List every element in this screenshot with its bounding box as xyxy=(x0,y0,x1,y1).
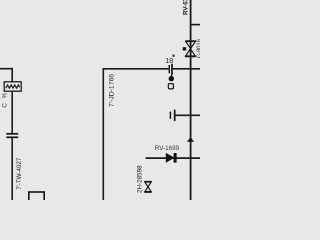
svg-text:18: 18 xyxy=(165,56,173,65)
svg-text:%: % xyxy=(2,92,9,98)
capacitor C1 plates xyxy=(6,134,18,138)
svg-text:RV-1699: RV-1699 xyxy=(155,145,180,152)
svg-text:C: C xyxy=(2,103,9,108)
diode D1 xyxy=(166,153,177,163)
capacitor C3 plates mid right xyxy=(170,110,174,121)
wire capacitor down to bottom edge xyxy=(11,138,13,200)
svg-text:RV-678: RV-678 xyxy=(183,0,190,15)
wire resistor to capacitor xyxy=(11,91,13,133)
component box bottom-left xyxy=(29,192,44,204)
triac Q1 (hourglass with gate) xyxy=(183,41,196,57)
svg-text:7'-TW-4027: 7'-TW-4027 xyxy=(16,157,23,190)
wire from C3 to right edge xyxy=(175,114,200,116)
resistor R (boxed zigzag) xyxy=(4,82,21,91)
wire middle vertical + elbow to right xyxy=(103,69,168,200)
junction dot under C2 xyxy=(168,75,174,89)
branch wire top right xyxy=(191,24,200,26)
wire left input elbow xyxy=(0,69,12,82)
wire diode row xyxy=(146,157,200,159)
svg-text:2H-28598: 2H-28598 xyxy=(136,165,143,193)
svg-text:C-9018: C-9018 xyxy=(196,39,200,58)
diac symbol bottom xyxy=(144,182,151,193)
label 18" xyxy=(165,55,174,65)
arrow up on right bus xyxy=(187,137,194,142)
svg-text:7'-JD-1766: 7'-JD-1766 xyxy=(108,74,115,107)
value label below resistor xyxy=(2,92,9,107)
wire capacitor right lead to right edge xyxy=(173,68,200,70)
capacitor C2 (18") plates xyxy=(169,64,172,75)
right bus vertical wire xyxy=(190,0,192,200)
